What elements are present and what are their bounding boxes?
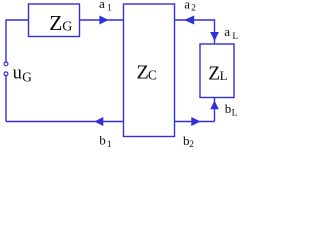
arrow a2 (wave into port 2, pointing left): [184, 16, 194, 25]
label a_1: [99, 0, 112, 14]
svg-text:G: G: [62, 20, 72, 35]
arrow b_L (wave leaving load, pointing up): [210, 101, 219, 110]
svg-text:2: 2: [189, 140, 194, 150]
source u_G terminal (bottom circle): [4, 72, 8, 76]
impedance box Z_G: [29, 4, 80, 37]
svg-text:a: a: [184, 0, 190, 11]
svg-text:a: a: [224, 24, 230, 39]
label Z_G: [49, 11, 72, 35]
svg-text:1: 1: [107, 140, 112, 150]
svg-text:C: C: [148, 68, 157, 83]
arrow a_L (wave into load, pointing down): [210, 32, 219, 41]
svg-text:2: 2: [191, 3, 196, 13]
svg-text:b: b: [99, 133, 106, 148]
source u_G terminal (top circle): [4, 62, 8, 66]
svg-text:L: L: [232, 32, 238, 42]
label a_2: [184, 0, 196, 13]
wire: top-left horizontal from source to Z_G: [6, 19, 29, 21]
wire: Z_C port 2 top to load corner: [175, 19, 215, 21]
two-port network box Z_C: [124, 4, 175, 137]
label u_G: [13, 63, 33, 84]
wire: left vertical upper segment (source top lead): [5, 19, 7, 61]
label b_2: [183, 133, 194, 150]
label a_L: [224, 24, 238, 42]
wire: right vertical down to Z_L top: [214, 19, 216, 43]
arrow a1 (wave into port 1, pointing right): [99, 16, 108, 25]
arrow b1 (wave leaving port 1, pointing left): [94, 117, 103, 126]
svg-text:L: L: [232, 109, 238, 119]
svg-text:a: a: [99, 0, 105, 11]
svg-text:Z: Z: [137, 61, 149, 83]
label Z_L: [208, 63, 227, 84]
svg-text:L: L: [220, 68, 228, 83]
wire: left vertical lower segment (source bottom lead): [5, 76, 7, 122]
svg-text:Z: Z: [208, 63, 220, 84]
wire: Z_G to Z_C port 1: [80, 19, 124, 21]
svg-text:G: G: [22, 69, 32, 84]
wire: right vertical from Z_L bottom to corner: [214, 98, 216, 122]
label b_L: [225, 101, 238, 119]
svg-text:u: u: [13, 63, 22, 83]
svg-text:Z: Z: [49, 11, 62, 35]
wire: bottom horizontal from source to Z_C port 1: [6, 121, 124, 123]
load impedance box Z_L: [200, 44, 234, 98]
arrow b2 (wave leaving port 2, pointing right): [191, 117, 200, 126]
label Z_C: [137, 61, 157, 83]
label b_1: [99, 133, 112, 150]
svg-text:b: b: [225, 101, 232, 116]
wire: bottom-right horizontal from Z_C port 2 to load corner: [175, 121, 215, 123]
svg-text:1: 1: [107, 4, 112, 14]
